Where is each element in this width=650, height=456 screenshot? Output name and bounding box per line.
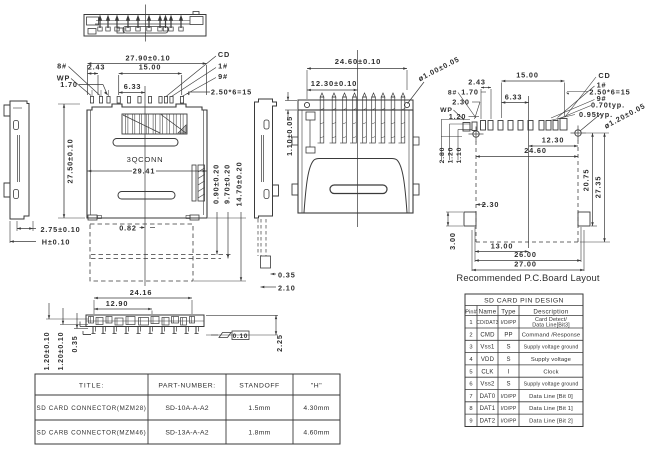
pin row verticals: [91, 90, 93, 96]
top view pins: [99, 18, 101, 28]
svg-text:0.10: 0.10: [233, 333, 248, 340]
dim phi 1.00: [408, 82, 425, 104]
middle view pins: [320, 97, 324, 143]
svg-text:I: I: [508, 369, 510, 375]
svg-text:Vss1: Vss1: [480, 345, 495, 351]
right spring detail: [192, 165, 196, 201]
pin design table: [465, 294, 583, 427]
svg-text:27.35: 27.35: [594, 176, 603, 199]
left side view slots: [14, 121, 19, 130]
svg-text:20.75: 20.75: [582, 169, 591, 192]
card trapezoid: [304, 159, 407, 213]
svg-text:24.16: 24.16: [130, 288, 153, 297]
svg-text:4.60mm: 4.60mm: [303, 430, 329, 437]
svg-text:27.90±0.10: 27.90±0.10: [126, 54, 171, 63]
svg-text:SD-13A-A-A2: SD-13A-A-A2: [165, 430, 208, 437]
svg-text:0.35: 0.35: [72, 335, 79, 352]
svg-text:I/O/PP: I/O/PP: [501, 394, 517, 400]
svg-text:CD: CD: [218, 50, 230, 59]
svg-text:1.70: 1.70: [461, 88, 479, 97]
main body outline: [87, 104, 207, 218]
svg-text:SD CARB CONNECTOR(MZM46): SD CARB CONNECTOR(MZM46): [37, 430, 147, 437]
svg-text:Recommended P.C.Board Layout: Recommended P.C.Board Layout: [456, 272, 599, 283]
svg-text:"H": "H": [311, 383, 322, 390]
pcb hole right: [575, 130, 581, 136]
svg-text:VDD: VDD: [481, 357, 495, 363]
svg-text:PP: PP: [504, 332, 512, 338]
pcb hole left: [473, 131, 479, 137]
svg-text:3.00: 3.00: [448, 232, 457, 250]
middle view flange: [298, 100, 413, 110]
svg-text:S: S: [506, 345, 510, 351]
svg-text:8: 8: [469, 406, 472, 412]
mid side dashed card: [260, 219, 262, 256]
svg-text:DAT2: DAT2: [480, 419, 496, 425]
svg-text:I/O/PP: I/O/PP: [501, 406, 517, 412]
svg-text:29.41: 29.41: [133, 167, 156, 176]
svg-text:24.60: 24.60: [524, 146, 547, 155]
svg-text:S: S: [506, 357, 510, 363]
card dashed lines: [91, 254, 232, 256]
svg-text:CD/DAT3: CD/DAT3: [476, 320, 498, 326]
top view outline: [84, 15, 206, 37]
middle view left pin detail: [306, 112, 315, 120]
svg-text:6: 6: [469, 382, 472, 388]
left side view body: [10, 101, 29, 219]
dims 1.20 1.20 0.35 bottom: [46, 318, 88, 320]
svg-text:Data Line[Bit3]: Data Line[Bit3]: [532, 323, 570, 329]
svg-text:Data Line [Bit 0]: Data Line [Bit 0]: [529, 394, 573, 400]
svg-text:0.70typ.: 0.70typ.: [591, 101, 625, 110]
svg-text:2: 2: [469, 332, 472, 338]
svg-text:1.20±0.10: 1.20±0.10: [44, 332, 51, 371]
body feet: [88, 215, 97, 220]
card oval: [330, 185, 387, 194]
svg-text:1.10: 1.10: [456, 147, 463, 164]
pcb dashed card: [475, 141, 477, 242]
svg-text:12.30: 12.30: [542, 136, 565, 145]
svg-text:CMD: CMD: [480, 332, 495, 338]
mid side bottom piece: [261, 256, 271, 268]
svg-text:I/O/PP: I/O/PP: [501, 320, 517, 326]
top view body line: [95, 23, 190, 25]
svg-text:SD CARD CONNECTOR(MZM28): SD CARD CONNECTOR(MZM28): [36, 405, 146, 412]
svg-text:1.20: 1.20: [448, 147, 455, 164]
top view right end detail: [190, 17, 203, 25]
top view centerline: [145, 5, 147, 42]
dim 2.25: [206, 314, 278, 316]
svg-text:14.70±0.20: 14.70±0.20: [235, 162, 244, 207]
svg-text:S: S: [506, 382, 510, 388]
svg-text:2.10: 2.10: [278, 284, 296, 293]
side tabs: [292, 184, 298, 195]
svg-text:DAT0: DAT0: [480, 394, 496, 400]
pcb dim 27.35: [604, 133, 606, 242]
bottom view leads: [92, 327, 94, 334]
svg-text:TITLE:: TITLE:: [79, 383, 104, 390]
mid side view body: [255, 99, 277, 218]
svg-text:13.00: 13.00: [491, 242, 514, 251]
svg-text:1.70: 1.70: [60, 80, 78, 89]
left side view bumps: [4, 105, 10, 116]
left lead: [80, 326, 86, 328]
svg-text:1#: 1#: [218, 62, 228, 71]
svg-text:2.80: 2.80: [439, 147, 446, 164]
svg-text:0.90±0.20: 0.90±0.20: [212, 164, 221, 204]
contact window: [122, 114, 187, 134]
svg-text:2.75±0.10: 2.75±0.10: [40, 225, 80, 234]
middle view body: [298, 110, 413, 213]
svg-text:27.00: 27.00: [514, 260, 537, 269]
svg-text:CD: CD: [598, 71, 610, 80]
svg-text:8#: 8#: [57, 62, 67, 71]
body inner walls: [90, 110, 92, 215]
svg-text:Data Line [Bit 1]: Data Line [Bit 1]: [529, 406, 573, 412]
svg-text:Clock: Clock: [543, 369, 558, 375]
svg-text:I/O/PP: I/O/PP: [501, 419, 517, 425]
svg-text:15.00: 15.00: [139, 63, 162, 72]
svg-text:1.8mm: 1.8mm: [248, 430, 270, 437]
svg-text:2.43: 2.43: [88, 63, 106, 72]
svg-text:24.60±0.10: 24.60±0.10: [335, 57, 381, 66]
svg-text:5: 5: [469, 369, 472, 375]
dim 1.10: [285, 100, 297, 102]
svg-text:Vss2: Vss2: [480, 382, 495, 388]
dashed card outline: [90, 224, 193, 281]
top view left end detail: [87, 17, 99, 25]
svg-text:6.33: 6.33: [505, 93, 523, 102]
svg-text:9: 9: [469, 419, 472, 425]
svg-text:DAT1: DAT1: [480, 406, 496, 412]
svg-text:Description: Description: [533, 309, 569, 316]
svg-text:1.10±0.05: 1.10±0.05: [285, 116, 294, 156]
main centerline: [144, 86, 146, 286]
svg-text:H±0.10: H±0.10: [42, 238, 71, 247]
svg-text:12.30±0.10: 12.30±0.10: [311, 79, 357, 88]
svg-text:Name: Name: [479, 309, 497, 316]
svg-text:Type: Type: [501, 309, 516, 316]
pcb centerline: [528, 96, 530, 248]
svg-text:2.30: 2.30: [452, 98, 470, 107]
svg-text:2.50*6=15: 2.50*6=15: [211, 88, 252, 97]
oval slot 1: [113, 139, 178, 147]
flatness callout: [219, 333, 231, 338]
middle centerline: [357, 50, 359, 227]
svg-text:Supply voltage ground: Supply voltage ground: [524, 382, 579, 388]
svg-text:1: 1: [469, 320, 472, 326]
bottom view body: [86, 315, 204, 327]
oval slot 2: [118, 192, 175, 200]
bottom view inner details: [89, 317, 94, 324]
svg-text:0.35: 0.35: [278, 271, 296, 280]
svg-text:SD CARD PIN DESIGN: SD CARD PIN DESIGN: [484, 298, 564, 305]
svg-text:7: 7: [469, 394, 472, 400]
svg-text:3: 3: [469, 345, 472, 351]
mid side view details: [264, 120, 269, 129]
svg-text:Command /Response: Command /Response: [522, 332, 581, 338]
contact diagonals: [123, 115, 160, 133]
contact stripes: [125, 114, 127, 134]
svg-text:SD-10A-A-A2: SD-10A-A-A2: [165, 405, 208, 412]
svg-text:8#: 8#: [448, 90, 457, 97]
pcb dim 20.75: [585, 132, 609, 134]
spec table: [35, 374, 340, 444]
svg-text:CLK: CLK: [481, 369, 493, 375]
svg-text:1.20±0.10: 1.20±0.10: [58, 332, 65, 371]
svg-text:2.43: 2.43: [468, 78, 486, 87]
svg-text:Supply voltage: Supply voltage: [531, 357, 571, 363]
svg-text:6.33: 6.33: [124, 82, 142, 91]
svg-text:4.30mm: 4.30mm: [303, 405, 329, 412]
svg-text:1.5mm: 1.5mm: [248, 405, 270, 412]
svg-text:26.00: 26.00: [514, 250, 537, 259]
pcb side pads: [464, 212, 476, 226]
svg-text:12.90: 12.90: [106, 299, 129, 308]
svg-text:Data Line [Bit 2]: Data Line [Bit 2]: [529, 419, 573, 425]
svg-text:0.82: 0.82: [119, 224, 137, 233]
pcb dim phi1.20: [580, 114, 601, 132]
svg-text:Pin#: Pin#: [465, 310, 477, 316]
pcb left bracket: [441, 119, 470, 121]
front view pins: [90, 97, 93, 104]
svg-text:Supply voltage ground: Supply voltage ground: [524, 345, 579, 351]
svg-text:9.70±0.20: 9.70±0.20: [223, 164, 232, 204]
svg-text:STANDOFF: STANDOFF: [239, 383, 280, 390]
pcb dim 3.00: [446, 211, 463, 213]
svg-text:27.50±0.10: 27.50±0.10: [66, 139, 75, 184]
svg-text:2.25: 2.25: [275, 334, 284, 352]
svg-text:PART-NUMBER:: PART-NUMBER:: [158, 383, 215, 390]
svg-text:9#: 9#: [218, 72, 228, 81]
svg-text:15.00: 15.00: [516, 71, 539, 80]
top view center bar: [123, 27, 168, 34]
pcb pads: [463, 123, 470, 132]
